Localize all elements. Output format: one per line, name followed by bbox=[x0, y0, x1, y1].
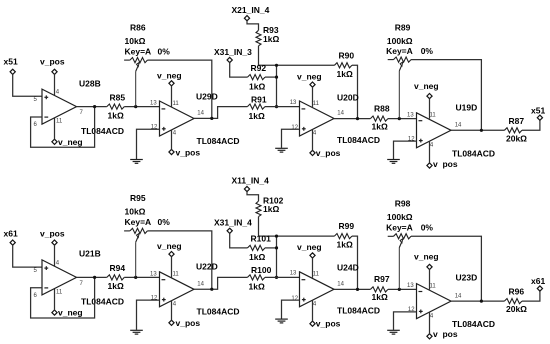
svg-text:v_neg: v_neg bbox=[297, 242, 322, 252]
svg-text:R96: R96 bbox=[509, 286, 525, 296]
svg-text:x51: x51 bbox=[4, 57, 18, 67]
wire feedback loop bbox=[31, 277, 95, 318]
wire feedback down bbox=[352, 65, 358, 118]
wire output bbox=[77, 276, 107, 278]
wire pin11 bbox=[171, 257, 173, 278]
wire pin12 to ground bbox=[282, 129, 300, 148]
wire feedback down bbox=[352, 236, 358, 289]
node v_pos bbox=[52, 240, 57, 245]
svg-text:14: 14 bbox=[455, 123, 462, 129]
wire bbox=[265, 247, 277, 249]
wire pot feedback bbox=[411, 60, 481, 131]
wire pin4 bbox=[54, 74, 56, 95]
svg-text:14: 14 bbox=[197, 111, 204, 117]
resistor R85 1k bbox=[107, 104, 125, 109]
svg-text:v_neg: v_neg bbox=[414, 81, 439, 91]
node v_pos bbox=[169, 320, 174, 325]
node junction wiper bbox=[134, 276, 137, 279]
svg-text:R101: R101 bbox=[251, 233, 272, 243]
node X31_IN_4 input connector bbox=[227, 228, 232, 233]
resistor R90 1k feedback bbox=[334, 63, 352, 68]
wire bbox=[230, 233, 248, 248]
node x61 input connector bbox=[10, 240, 15, 245]
svg-text:1kΩ: 1kΩ bbox=[263, 204, 279, 214]
svg-text:x51: x51 bbox=[531, 106, 545, 116]
svg-text:100kΩ: 100kΩ bbox=[387, 36, 413, 46]
svg-text:1kΩ: 1kΩ bbox=[249, 281, 265, 291]
svg-text:14: 14 bbox=[337, 282, 344, 288]
node v_neg bbox=[427, 264, 432, 269]
wire bbox=[388, 288, 417, 290]
op-amp U24D bbox=[300, 272, 335, 307]
node v_pos bbox=[427, 163, 432, 168]
wire pin11 bbox=[54, 118, 56, 140]
svg-text:R99: R99 bbox=[339, 221, 355, 231]
svg-text:R88: R88 bbox=[374, 104, 390, 114]
svg-text:v_neg: v_neg bbox=[414, 251, 439, 261]
wire pot feedback bbox=[147, 60, 211, 118]
node v_neg bbox=[169, 81, 174, 86]
svg-text:v_neg: v_neg bbox=[157, 71, 182, 81]
node output junction bbox=[356, 117, 359, 120]
node v_pos bbox=[427, 334, 432, 339]
wire bbox=[13, 245, 42, 267]
node output junction bbox=[93, 276, 96, 279]
ground bbox=[130, 329, 143, 331]
wire pot feedback bbox=[411, 236, 481, 301]
svg-text:v_pos: v_pos bbox=[316, 148, 341, 158]
svg-text:v pos: v pos bbox=[433, 159, 458, 169]
node junction wiper bbox=[134, 105, 137, 108]
node X11_IN_4 input connector bbox=[244, 186, 249, 191]
svg-text:R87: R87 bbox=[509, 116, 525, 126]
svg-text:Key=A: Key=A bbox=[125, 217, 152, 227]
node output junction bbox=[480, 300, 483, 303]
svg-text:1kΩ: 1kΩ bbox=[337, 69, 353, 79]
node junction wiper bbox=[398, 117, 401, 120]
svg-text:13: 13 bbox=[150, 101, 157, 107]
wire bbox=[258, 217, 260, 237]
node output junction bbox=[480, 129, 483, 132]
resistor R97 1k bbox=[370, 287, 388, 292]
svg-text:R100: R100 bbox=[251, 265, 272, 275]
resistor R92 1k bbox=[248, 75, 266, 80]
wire pin11 bbox=[312, 87, 314, 107]
node v_pos bbox=[169, 149, 174, 154]
svg-text:U24D: U24D bbox=[337, 263, 359, 273]
wire pin4 bbox=[429, 312, 431, 334]
node X31_IN_3 input connector bbox=[227, 57, 232, 62]
op-amp U21B bbox=[42, 260, 77, 295]
svg-text:R98: R98 bbox=[395, 199, 411, 209]
wire bbox=[124, 276, 159, 278]
ground bbox=[387, 329, 400, 331]
node v_neg bbox=[52, 139, 57, 144]
svg-text:14: 14 bbox=[455, 293, 462, 299]
wire bbox=[265, 276, 300, 278]
potentiometer R98 100k bbox=[388, 235, 394, 237]
svg-text:U21B: U21B bbox=[79, 249, 101, 259]
svg-text:11: 11 bbox=[313, 272, 320, 278]
svg-text:v_pos: v_pos bbox=[176, 148, 201, 158]
svg-text:Key=A: Key=A bbox=[386, 222, 413, 232]
svg-text:12: 12 bbox=[291, 125, 298, 131]
node v_pos bbox=[310, 321, 315, 326]
svg-text:R95: R95 bbox=[130, 193, 146, 203]
svg-text:X31_IN_3: X31_IN_3 bbox=[214, 47, 252, 57]
svg-text:v_pos: v_pos bbox=[316, 319, 341, 329]
svg-text:11: 11 bbox=[430, 284, 437, 290]
resistor R102 1k vertical bbox=[256, 201, 261, 217]
svg-text:11: 11 bbox=[56, 119, 63, 125]
node output junction bbox=[356, 288, 359, 291]
svg-text:TL084ACD: TL084ACD bbox=[81, 296, 124, 306]
svg-text:R91: R91 bbox=[251, 95, 267, 105]
ground bbox=[275, 318, 288, 320]
node v_pos bbox=[310, 150, 315, 155]
svg-text:14: 14 bbox=[337, 111, 344, 117]
svg-text:1kΩ: 1kΩ bbox=[108, 281, 124, 291]
wire pin4 bbox=[171, 130, 173, 150]
wire pin4 bbox=[312, 130, 314, 151]
svg-text:13: 13 bbox=[407, 112, 414, 118]
op-amp U20D bbox=[300, 101, 335, 136]
svg-text:TL084ACD: TL084ACD bbox=[337, 305, 380, 315]
op-amp U23D bbox=[417, 284, 452, 319]
svg-text:v_neg: v_neg bbox=[58, 308, 83, 318]
svg-text:R92: R92 bbox=[251, 63, 267, 73]
node junction wiper bbox=[398, 288, 401, 291]
svg-text:11: 11 bbox=[313, 101, 320, 107]
wire summing column bbox=[276, 236, 278, 277]
wire feedback loop bbox=[31, 107, 95, 148]
node junction top bbox=[275, 64, 278, 67]
node x51 output connector bbox=[537, 115, 542, 120]
svg-text:20kΩ: 20kΩ bbox=[506, 134, 527, 144]
svg-text:10kΩ: 10kΩ bbox=[125, 207, 146, 217]
wire to output connector bbox=[522, 291, 540, 301]
svg-text:X21_IN_4: X21_IN_4 bbox=[232, 5, 270, 15]
resistor R87 20k bbox=[504, 128, 522, 133]
op-amp U28B bbox=[42, 89, 77, 124]
node X21_IN_4 input connector bbox=[244, 16, 249, 21]
svg-text:1kΩ: 1kΩ bbox=[249, 82, 265, 92]
wire pin11 bbox=[171, 86, 173, 107]
op-amp U19D bbox=[417, 113, 452, 148]
svg-text:10kΩ: 10kΩ bbox=[125, 36, 146, 46]
node v_neg bbox=[310, 82, 315, 87]
svg-text:v_neg: v_neg bbox=[58, 137, 83, 147]
svg-text:1kΩ: 1kΩ bbox=[337, 239, 353, 249]
svg-text:TL084ACD: TL084ACD bbox=[452, 319, 495, 329]
svg-text:1kΩ: 1kΩ bbox=[372, 122, 388, 132]
wire pin12 to ground bbox=[137, 129, 160, 159]
svg-text:U23D: U23D bbox=[456, 273, 478, 283]
wire bbox=[258, 46, 260, 66]
svg-text:TL084ACD: TL084ACD bbox=[197, 136, 240, 146]
ground bbox=[275, 147, 288, 149]
svg-text:R86: R86 bbox=[130, 23, 146, 33]
svg-text:v_pos: v_pos bbox=[176, 318, 201, 328]
ground bbox=[130, 159, 143, 161]
resistor R96 20k bbox=[504, 299, 522, 304]
resistor R100 1k bbox=[247, 275, 265, 280]
svg-text:1kΩ: 1kΩ bbox=[263, 34, 279, 44]
svg-text:U19D: U19D bbox=[456, 102, 478, 112]
wire bbox=[247, 191, 259, 201]
node junction bottom bbox=[275, 276, 278, 279]
wire pin4 bbox=[54, 245, 56, 266]
svg-text:13: 13 bbox=[290, 100, 297, 106]
node junction mid bbox=[275, 76, 278, 79]
svg-text:0%: 0% bbox=[158, 47, 171, 57]
node output junction bbox=[93, 105, 96, 108]
node junction mid bbox=[275, 246, 278, 249]
wire output jog bbox=[194, 277, 247, 289]
wire bbox=[13, 74, 42, 96]
svg-text:13: 13 bbox=[407, 283, 414, 289]
svg-text:11: 11 bbox=[173, 101, 180, 107]
resistor R101 1k bbox=[248, 245, 266, 250]
svg-text:v_neg: v_neg bbox=[157, 241, 182, 251]
wire output bbox=[451, 129, 504, 131]
node junction top bbox=[275, 235, 278, 238]
wire bbox=[230, 62, 248, 77]
svg-text:1kΩ: 1kΩ bbox=[249, 252, 265, 262]
svg-text:0%: 0% bbox=[421, 46, 434, 56]
node v_neg bbox=[52, 310, 57, 315]
wire pin11 bbox=[429, 99, 431, 119]
svg-text:13: 13 bbox=[150, 271, 157, 277]
potentiometer R89 100k bbox=[388, 59, 394, 61]
wire pin4 bbox=[312, 300, 314, 321]
wire to summing node bbox=[259, 235, 335, 237]
wire pin12 to ground bbox=[394, 312, 417, 330]
node v_neg bbox=[310, 253, 315, 258]
svg-text:v_neg: v_neg bbox=[297, 72, 322, 82]
svg-text:v_pos: v_pos bbox=[40, 57, 65, 67]
svg-text:Key=A: Key=A bbox=[386, 46, 413, 56]
svg-text:R85: R85 bbox=[110, 93, 126, 103]
node junction bottom bbox=[275, 105, 278, 108]
svg-text:100kΩ: 100kΩ bbox=[387, 212, 413, 222]
svg-text:U28B: U28B bbox=[79, 78, 101, 88]
wire bbox=[388, 118, 417, 120]
svg-text:11: 11 bbox=[173, 272, 180, 278]
svg-text:1kΩ: 1kΩ bbox=[249, 111, 265, 121]
wire pin4 bbox=[429, 141, 431, 163]
ground bbox=[387, 159, 400, 161]
wire bbox=[124, 106, 159, 108]
wire pot feedback bbox=[147, 231, 211, 289]
svg-text:X31_IN_4: X31_IN_4 bbox=[214, 217, 252, 227]
wire output jog bbox=[194, 107, 247, 119]
node v_neg bbox=[169, 252, 174, 257]
wire pin12 to ground bbox=[137, 300, 160, 330]
svg-text:0%: 0% bbox=[421, 222, 434, 232]
svg-text:1kΩ: 1kΩ bbox=[108, 111, 124, 121]
potentiometer R95 10k bbox=[124, 230, 130, 232]
svg-text:13: 13 bbox=[290, 271, 297, 277]
potentiometer R86 10k bbox=[124, 59, 130, 61]
wire output bbox=[77, 106, 107, 108]
svg-text:v pos: v pos bbox=[433, 329, 458, 339]
svg-text:Key=A: Key=A bbox=[125, 47, 152, 57]
wire to output connector bbox=[522, 120, 540, 130]
wire bbox=[265, 106, 300, 108]
svg-text:14: 14 bbox=[197, 282, 204, 288]
svg-text:TL084ACD: TL084ACD bbox=[452, 149, 495, 159]
svg-text:R89: R89 bbox=[395, 22, 411, 32]
wire pin11 bbox=[429, 269, 431, 289]
svg-text:x61: x61 bbox=[531, 276, 545, 286]
node v_pos bbox=[52, 69, 57, 74]
svg-text:11: 11 bbox=[430, 113, 437, 119]
resistor R93 1k vertical bbox=[256, 30, 261, 45]
node output junction bbox=[210, 288, 213, 291]
op-amp U29D bbox=[160, 101, 195, 136]
node v_neg bbox=[427, 94, 432, 99]
svg-text:U22D: U22D bbox=[196, 262, 218, 272]
wire pin4 bbox=[171, 300, 173, 320]
resistor R91 1k bbox=[247, 104, 265, 109]
wire summing column bbox=[276, 65, 278, 106]
svg-text:U20D: U20D bbox=[337, 92, 359, 102]
svg-text:X11_IN_4: X11_IN_4 bbox=[232, 175, 270, 185]
wire pin12 to ground bbox=[394, 141, 417, 159]
resistor R88 1k bbox=[370, 116, 388, 121]
svg-text:x61: x61 bbox=[4, 229, 18, 239]
svg-text:TL084ACD: TL084ACD bbox=[337, 135, 380, 145]
wire output bbox=[451, 300, 504, 302]
wire pin11 bbox=[312, 258, 314, 278]
svg-text:R97: R97 bbox=[374, 274, 390, 284]
op-amp U22D bbox=[160, 272, 195, 307]
wire output bbox=[334, 288, 370, 290]
wire bbox=[265, 76, 277, 78]
svg-text:TL084ACD: TL084ACD bbox=[81, 126, 124, 136]
node output junction bbox=[210, 117, 213, 120]
svg-text:11: 11 bbox=[56, 289, 63, 295]
wire pin11 bbox=[54, 289, 56, 311]
svg-text:R90: R90 bbox=[339, 51, 355, 61]
resistor R94 1k bbox=[107, 275, 125, 280]
wire bbox=[247, 21, 259, 31]
svg-text:U29D: U29D bbox=[196, 91, 218, 101]
node x61 output connector bbox=[537, 286, 542, 291]
node x51 input connector bbox=[10, 69, 15, 74]
svg-text:v_pos: v_pos bbox=[40, 229, 65, 239]
svg-text:0%: 0% bbox=[158, 217, 171, 227]
svg-text:20kΩ: 20kΩ bbox=[506, 304, 527, 314]
wire pin12 to ground bbox=[282, 300, 300, 319]
wire output bbox=[334, 118, 370, 120]
wire to summing node bbox=[259, 64, 335, 66]
svg-text:1kΩ: 1kΩ bbox=[372, 292, 388, 302]
svg-text:TL084ACD: TL084ACD bbox=[197, 306, 240, 316]
resistor R99 1k feedback bbox=[334, 234, 352, 239]
svg-text:12: 12 bbox=[291, 296, 298, 302]
svg-text:R94: R94 bbox=[110, 263, 126, 273]
